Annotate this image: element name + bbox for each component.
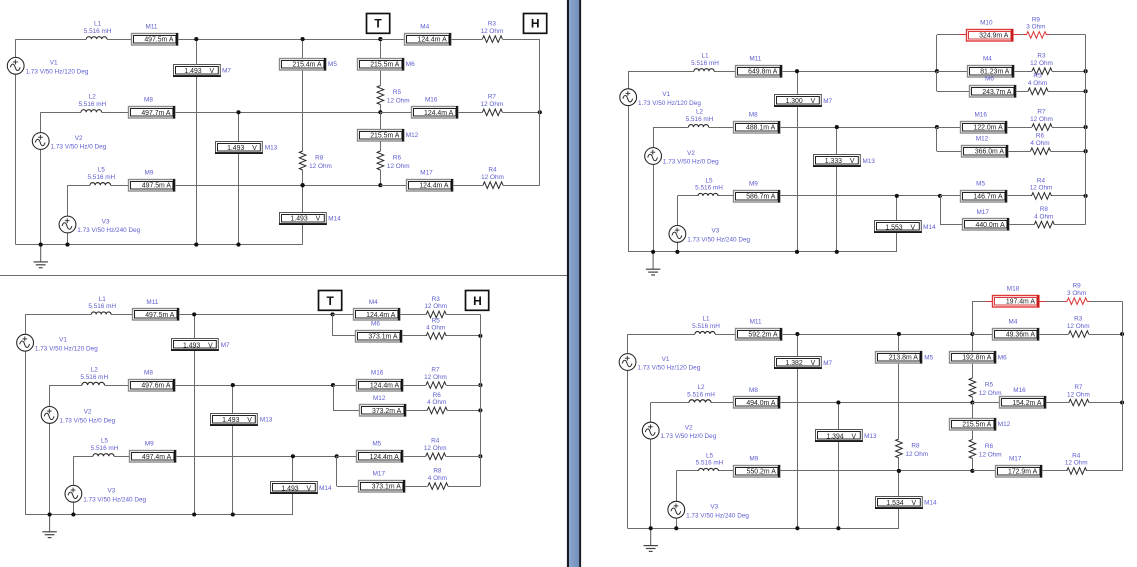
circuit4 wire V2 vertical <box>650 403 652 423</box>
circuit4 node rail-V2 <box>649 526 653 530</box>
svg-text:R8: R8 <box>1040 206 1049 213</box>
svg-text:M6: M6 <box>371 320 380 327</box>
svg-text:V: V <box>247 417 252 424</box>
svg-text:A: A <box>393 333 398 340</box>
svg-text:A: A <box>394 454 399 461</box>
circuit3 wire R5 to bus <box>1048 91 1086 93</box>
circuit1 wire R3 to bus <box>502 39 539 41</box>
circuit2 source V2 <box>41 407 58 424</box>
circuit2 wire M5 to R4 <box>403 456 426 458</box>
svg-text:5.516 mH: 5.516 mH <box>696 460 724 467</box>
circuit1 wire R4 to bus <box>503 185 540 187</box>
svg-text:A: A <box>396 484 401 491</box>
circuit3 pin M10 left <box>959 34 966 36</box>
circuit3 node row-M16 <box>935 125 939 129</box>
svg-text:A: A <box>166 183 171 190</box>
circuit3 node rowC-M14 <box>895 194 899 198</box>
circuit3 wire red branch to M10 <box>937 34 959 36</box>
svg-text:A: A <box>771 125 776 132</box>
circuit4 wire red branch riser <box>972 301 974 334</box>
svg-text:A: A <box>395 383 400 390</box>
circuit2 node rowB-M13 <box>231 383 235 387</box>
circuit3 resistor R8 <box>1034 221 1054 228</box>
circuit1 wire R7 to bus <box>502 112 539 114</box>
svg-text:R5: R5 <box>432 317 441 324</box>
circuit3 ammeter M10 (highlighted) <box>967 29 1013 42</box>
svg-text:497.4m: 497.4m <box>142 454 165 461</box>
svg-text:M12: M12 <box>373 395 386 402</box>
svg-text:440.0m: 440.0m <box>976 222 999 229</box>
svg-text:M5: M5 <box>372 441 381 448</box>
svg-text:V: V <box>252 145 257 152</box>
svg-text:M12: M12 <box>976 136 989 143</box>
circuit4 wire chain2 upper <box>972 334 974 351</box>
circuit3 voltmeter M13 <box>813 155 861 167</box>
circuit1 wire L2 to M8 <box>102 112 129 114</box>
circuit4 node rail-V3 <box>674 526 678 530</box>
svg-text:1.493: 1.493 <box>183 343 200 350</box>
svg-text:T: T <box>327 294 335 308</box>
circuit4 node bus-R3 <box>1120 332 1124 336</box>
circuit2 resistor R3 <box>426 311 446 318</box>
svg-text:A: A <box>1005 69 1010 76</box>
circuit4 node rail-M7 <box>795 526 799 530</box>
svg-text:1.73 V/50 Hz/0 Deg: 1.73 V/50 Hz/0 Deg <box>661 433 717 440</box>
svg-text:A: A <box>998 125 1003 132</box>
svg-text:M6: M6 <box>406 61 415 68</box>
svg-text:A: A <box>449 110 454 117</box>
svg-text:L1: L1 <box>701 53 709 60</box>
svg-text:M6: M6 <box>985 76 994 83</box>
circuit2 wire node to M5 <box>337 456 357 458</box>
svg-text:M16: M16 <box>371 370 384 377</box>
circuit4 source V3 <box>668 501 685 518</box>
svg-text:H: H <box>531 17 540 31</box>
circuit3 wire V2 vertical <box>653 127 655 148</box>
circuit2 ground <box>42 515 56 538</box>
circuit1 node rowC-M14 <box>301 183 305 187</box>
svg-text:M17: M17 <box>420 170 433 177</box>
svg-text:L1: L1 <box>99 296 107 303</box>
circuit2 ammeter M4 <box>354 308 400 321</box>
circuit1 wire M4 to R3 <box>451 39 483 41</box>
circuit4 wire L1 to M11 <box>715 334 735 336</box>
svg-text:R6: R6 <box>393 155 402 162</box>
svg-text:81.23m: 81.23m <box>980 69 1003 76</box>
circuit4 wire V3 vertical <box>676 471 678 501</box>
svg-text:146.7m: 146.7m <box>973 193 996 200</box>
circuit3 wire node to M4 <box>937 71 967 73</box>
circuit3 wire R7 to bus <box>1052 127 1086 129</box>
circuit1 node rail-V2 <box>39 243 43 247</box>
circuit3 wire M8 to node <box>779 127 937 129</box>
circuit3 wire R9 to bus top <box>1049 34 1085 36</box>
svg-text:A: A <box>397 408 402 415</box>
svg-text:A: A <box>1030 332 1035 339</box>
circuit2 source V1 <box>17 334 34 351</box>
svg-text:1.73 V/50 Hz/0 Deg: 1.73 V/50 Hz/0 Deg <box>663 159 719 166</box>
circuit4 voltmeter M13 <box>815 430 863 442</box>
circuit4 wire V3 top to L5 <box>676 470 698 472</box>
circuit2 wire V1 vertical <box>25 314 27 334</box>
svg-text:R8: R8 <box>433 468 442 475</box>
circuit3 wire lower branch M6 <box>936 71 938 91</box>
circuit4 pin M18 left <box>986 301 993 303</box>
circuit4 wire R9 to bus top <box>1090 301 1122 303</box>
svg-text:5.516 mH: 5.516 mH <box>84 28 112 35</box>
circuit1 wire L5 to M9 <box>111 185 129 187</box>
circuit2 node row-M4 <box>331 312 335 316</box>
circuit2 wire M11 to node <box>179 314 333 316</box>
svg-text:1.493: 1.493 <box>290 216 307 223</box>
circuit3 node row-M4 <box>935 69 939 73</box>
svg-text:49.36m: 49.36m <box>1006 332 1029 339</box>
circuit2 ammeter M12 <box>360 404 406 417</box>
svg-text:M4: M4 <box>369 299 378 306</box>
svg-text:A: A <box>169 37 174 44</box>
svg-text:A: A <box>773 69 778 76</box>
svg-text:M11: M11 <box>146 299 158 306</box>
svg-text:V: V <box>306 486 311 493</box>
circuit4 voltmeter M7 <box>774 357 822 369</box>
circuit2 ammeter M8 <box>129 379 175 392</box>
circuit3 wire M5 to R4 <box>1007 195 1032 197</box>
circuit3 node rail-M13 <box>835 250 839 254</box>
circuit3 node row-M5 <box>938 194 942 198</box>
circuit2 node rowC-M14 <box>291 454 295 458</box>
circuit3 wire M9 to node <box>780 195 940 197</box>
circuit2 wire M17 to R8 <box>405 486 428 488</box>
svg-text:5.516 mH: 5.516 mH <box>91 445 119 452</box>
circuit1 ammeter M8 <box>129 106 175 119</box>
circuit3 wire R4 to bus <box>1052 195 1086 197</box>
circuit3 wire V1 top to L1 <box>628 71 694 73</box>
svg-text:R4: R4 <box>431 438 440 445</box>
svg-text:V: V <box>850 158 855 165</box>
svg-text:5.516 mH: 5.516 mH <box>88 303 116 310</box>
circuit1 resistor R8 <box>299 151 306 170</box>
circuit3 pin R9 right <box>1046 34 1049 36</box>
svg-text:12 Ohm: 12 Ohm <box>424 445 447 452</box>
svg-text:A: A <box>391 312 396 319</box>
circuit4 wire L5 to M9 <box>719 470 734 472</box>
svg-text:122.0m: 122.0m <box>974 125 997 132</box>
circuit2 wire node to M16 <box>333 385 357 387</box>
svg-text:124.4m: 124.4m <box>366 312 389 319</box>
circuit1 wire right bus <box>539 39 541 185</box>
circuit3 wire V3 top to L5 <box>677 195 698 197</box>
svg-text:1.493: 1.493 <box>281 486 298 493</box>
circuit3 node bus rowB <box>1084 125 1088 129</box>
circuit4 node rail-M13 <box>836 526 840 530</box>
svg-text:A: A <box>1030 299 1035 306</box>
circuit3 pin M10 right <box>1013 34 1020 36</box>
circuit1 source V2 <box>32 133 49 150</box>
svg-text:V3: V3 <box>710 504 718 511</box>
circuit3 resistor R6 <box>1031 148 1051 155</box>
circuit3 wire M4 to R3 <box>1014 71 1032 73</box>
svg-text:V: V <box>811 98 816 105</box>
svg-text:A: A <box>998 193 1003 200</box>
svg-text:T: T <box>374 17 382 31</box>
svg-text:A: A <box>987 355 992 362</box>
svg-text:V1: V1 <box>662 356 670 363</box>
svg-text:1.300: 1.300 <box>785 98 802 105</box>
svg-text:215.5m: 215.5m <box>370 61 393 68</box>
svg-text:M4: M4 <box>1009 318 1018 325</box>
svg-text:A: A <box>999 149 1004 156</box>
circuit2 wire L5 to M9 <box>114 456 129 458</box>
circuit4 ammeter M16 <box>1000 396 1046 409</box>
circuit2 wire V1 top to L1 <box>25 314 91 316</box>
circuit2 voltmeter M13 <box>210 414 258 426</box>
circuit4 wire red branch to M18 <box>972 301 985 303</box>
circuit2 wire voltmeter M7 branch <box>194 314 196 514</box>
svg-text:V1: V1 <box>662 91 670 98</box>
circuit1 voltmeter M7 <box>173 65 221 77</box>
sheet boundary line left pane <box>0 275 567 277</box>
circuit1 wire V1 vertical <box>15 39 17 57</box>
svg-text:V1: V1 <box>50 60 58 67</box>
circuit4 ammeter M12 <box>950 418 996 431</box>
circuit2 voltmeter M14 <box>270 482 318 494</box>
svg-text:1.333: 1.333 <box>825 158 842 165</box>
circuit1 wire M17 to R4 <box>453 185 483 187</box>
circuit3 voltmeter M14 <box>874 221 922 233</box>
svg-text:4 Ohm: 4 Ohm <box>1028 80 1047 87</box>
circuit1 wire chain1 <box>302 39 304 58</box>
circuit1 wire chain2 upper <box>380 39 382 58</box>
circuit1 wire V2 vertical <box>40 112 42 132</box>
circuit1 ammeter M4 <box>405 33 451 46</box>
svg-text:M17: M17 <box>373 471 386 478</box>
circuit2 resistor R4 <box>426 453 446 460</box>
circuit3 wire voltmeter M14 branch <box>896 196 898 221</box>
svg-text:12 Ohm: 12 Ohm <box>481 101 504 108</box>
circuit3 wire V1 vertical <box>628 71 630 89</box>
svg-text:12 Ohm: 12 Ohm <box>979 452 1002 459</box>
svg-text:M16: M16 <box>1013 387 1026 394</box>
circuit4 resistor R3 <box>1069 331 1089 338</box>
circuit4 node rowB-M13 <box>836 400 840 404</box>
svg-text:M14: M14 <box>924 500 937 507</box>
circuit3 ammeter M8 <box>734 121 780 134</box>
svg-text:A: A <box>773 332 778 339</box>
circuit4 wire R3 to bus <box>1089 334 1122 336</box>
circuit2 wire voltmeter M14 branch <box>292 456 294 482</box>
circuit1 inductor L2 <box>81 110 102 113</box>
circuit2 wire lower branch M6 <box>332 314 334 336</box>
circuit4 ammeter M6 <box>950 351 996 364</box>
circuit3 node bus rowA <box>1084 69 1088 73</box>
circuit1 ammeter M6 <box>358 58 404 71</box>
circuit2 source V3 <box>65 485 82 502</box>
circuit4 wire V1 vertical <box>627 334 629 354</box>
circuit4 pin R9 left <box>1064 301 1067 303</box>
circuit2 wire M12 to R6 <box>405 410 427 412</box>
circuit4 wire node to M4 <box>972 334 992 336</box>
circuit1 node rowA-M7 <box>194 37 198 41</box>
circuit3 ammeter M6 <box>970 85 1016 98</box>
circuit1 node rowB-chain2 <box>378 110 382 114</box>
circuit4 wire chain2 lower <box>972 403 974 419</box>
svg-text:M6: M6 <box>998 354 1007 361</box>
svg-text:1.394: 1.394 <box>826 433 843 440</box>
svg-text:R9: R9 <box>1073 283 1082 290</box>
circuit3 wire V2 top to L2 <box>653 127 688 129</box>
svg-text:M14: M14 <box>319 485 332 492</box>
circuit1 node rail-V3 <box>65 243 69 247</box>
circuit1 node rowB-M13 <box>236 110 240 114</box>
circuit4 wire M4 to R3 <box>1039 334 1069 336</box>
circuit2 ammeter M11 <box>133 308 179 321</box>
circuit3 wire L5 to M9 <box>718 195 733 197</box>
circuit4 wire M11 to node <box>782 334 973 336</box>
circuit1 ammeter M17 <box>407 179 453 192</box>
circuit4 ammeter M17 <box>996 465 1042 478</box>
circuit2 junction box H <box>466 291 489 311</box>
svg-text:R7: R7 <box>1037 109 1046 116</box>
svg-text:A: A <box>170 312 175 319</box>
svg-text:M17: M17 <box>1009 455 1022 462</box>
circuit1 wire M11 to node <box>178 39 381 41</box>
svg-text:1.382: 1.382 <box>785 360 802 367</box>
svg-text:A: A <box>166 383 171 390</box>
svg-text:M11: M11 <box>146 24 158 31</box>
circuit2 inductor L5 <box>93 454 114 457</box>
svg-text:12 Ohm: 12 Ohm <box>1030 185 1053 192</box>
circuit2 ammeter M9 <box>130 450 176 463</box>
svg-text:R6: R6 <box>433 392 442 399</box>
svg-text:V2: V2 <box>685 424 693 431</box>
svg-text:L5: L5 <box>705 177 713 184</box>
svg-text:V: V <box>851 433 856 440</box>
svg-text:M16: M16 <box>425 97 438 104</box>
circuit3 inductor L1 <box>694 69 714 72</box>
circuit4 node bus-R7 <box>1120 400 1124 404</box>
svg-text:M7: M7 <box>222 68 231 75</box>
circuit2 wire M4 to R3 <box>400 314 427 316</box>
circuit4 resistor R9 (highlighted) <box>1067 298 1087 305</box>
svg-text:R5: R5 <box>1033 73 1042 80</box>
circuit4 node rowA-chain2 <box>970 332 974 336</box>
circuit4 wire R7 to bus <box>1089 402 1122 404</box>
circuit4 inductor L5 <box>699 468 719 471</box>
circuit3 node bus-R6 <box>1084 149 1088 153</box>
circuit4 source V2 <box>642 422 659 439</box>
svg-text:M12: M12 <box>406 132 419 139</box>
svg-text:R3: R3 <box>1037 53 1046 60</box>
circuit3 wire lower branch M12 <box>936 127 938 151</box>
svg-text:1.553: 1.553 <box>885 225 902 232</box>
svg-text:M7: M7 <box>823 360 832 367</box>
svg-text:L5: L5 <box>98 167 106 174</box>
svg-text:R4: R4 <box>488 167 497 174</box>
svg-text:1.73 V/50 Hz/240 Deg: 1.73 V/50 Hz/240 Deg <box>687 237 750 244</box>
circuit1 wire voltmeter M13 branch <box>238 112 240 244</box>
svg-text:4 Ohm: 4 Ohm <box>1030 140 1049 147</box>
svg-text:124.4m: 124.4m <box>424 110 447 117</box>
svg-text:A: A <box>771 193 776 200</box>
circuit4 wire M16 to R7 <box>1046 402 1069 404</box>
circuit3 wire R6 to bus <box>1051 151 1086 153</box>
circuit1 wire node to M16 <box>380 112 411 114</box>
circuit4 ammeter M5 <box>876 351 922 364</box>
svg-text:V: V <box>208 343 213 350</box>
circuit3 node rowA-M7 <box>795 69 799 73</box>
circuit1 wire node to M4 <box>380 39 404 41</box>
circuit3 wire M16 to R7 <box>1007 127 1032 129</box>
svg-text:M8: M8 <box>749 387 758 394</box>
circuit1 wire V2 top to L2 <box>41 112 81 114</box>
svg-text:12 Ohm: 12 Ohm <box>1030 116 1053 123</box>
svg-text:4 Ohm: 4 Ohm <box>427 399 446 406</box>
circuit3 source V1 <box>620 89 637 106</box>
circuit3 ammeter M16 <box>961 121 1007 134</box>
svg-text:497.7m: 497.7m <box>141 110 164 117</box>
svg-text:1.73 V/50 Hz/0 Deg: 1.73 V/50 Hz/0 Deg <box>59 418 115 425</box>
svg-text:124.4m: 124.4m <box>370 383 393 390</box>
svg-text:124.4m: 124.4m <box>418 37 441 44</box>
circuit1 wire M9 to node <box>175 185 380 187</box>
svg-text:1.73 V/50 Hz/240 Deg: 1.73 V/50 Hz/240 Deg <box>686 512 749 519</box>
svg-text:M17: M17 <box>976 209 989 216</box>
circuit3 wire M12 to R6 <box>1008 151 1030 153</box>
svg-text:124.4m: 124.4m <box>419 183 442 190</box>
svg-text:A: A <box>1004 32 1009 39</box>
circuit1 wire V3 vertical <box>67 185 69 216</box>
svg-text:V3: V3 <box>711 228 719 235</box>
circuit1 wire M8 to node <box>175 112 381 114</box>
circuit2 wire V3 vertical <box>73 456 75 485</box>
circuit4 wire chain1 <box>898 334 900 351</box>
svg-text:12 Ohm: 12 Ohm <box>387 163 410 170</box>
svg-text:V2: V2 <box>84 409 92 416</box>
circuit2 node rail-M13 <box>231 512 235 516</box>
circuit2 wire V2 vertical <box>49 385 51 406</box>
svg-text:M8: M8 <box>144 370 153 377</box>
svg-text:373.1m: 373.1m <box>372 484 395 491</box>
svg-text:A: A <box>1037 400 1042 407</box>
circuit3 wire M6 to R5 <box>1016 91 1028 93</box>
circuit3 ammeter M5 <box>961 190 1007 203</box>
circuit3 source V2 <box>645 148 662 165</box>
circuit4 wire L2 to M8 <box>711 402 733 404</box>
circuit1 ground <box>34 245 48 268</box>
svg-text:213.8m: 213.8m <box>889 355 912 362</box>
circuit3 wire red branch riser <box>936 35 938 71</box>
circuit4 node rowA-chain1 <box>897 332 901 336</box>
svg-text:R8: R8 <box>315 155 324 162</box>
svg-text:M7: M7 <box>823 98 832 105</box>
circuit1 wire voltmeter M7 branch <box>196 39 198 245</box>
circuit1 inductor L1 <box>86 37 107 39</box>
circuit1 wire V1 top to L1 <box>16 39 87 41</box>
circuit4 wire right bus <box>1122 301 1124 471</box>
circuit4 node rowC-chain1 <box>897 469 901 473</box>
svg-text:5.516 mH: 5.516 mH <box>686 116 714 123</box>
svg-text:12 Ohm: 12 Ohm <box>424 303 447 310</box>
svg-text:497.5m: 497.5m <box>142 183 165 190</box>
circuit2 wire R4 to bus <box>446 456 481 458</box>
circuit1 node rowA-T <box>378 37 382 41</box>
svg-text:5.516 mH: 5.516 mH <box>78 101 106 108</box>
svg-text:M9: M9 <box>749 180 758 187</box>
circuit2 ammeter M17 <box>359 480 405 493</box>
circuit3 node rail-V2 <box>651 250 655 254</box>
svg-text:R4: R4 <box>1072 452 1081 459</box>
svg-text:5.516 mH: 5.516 mH <box>80 374 108 381</box>
